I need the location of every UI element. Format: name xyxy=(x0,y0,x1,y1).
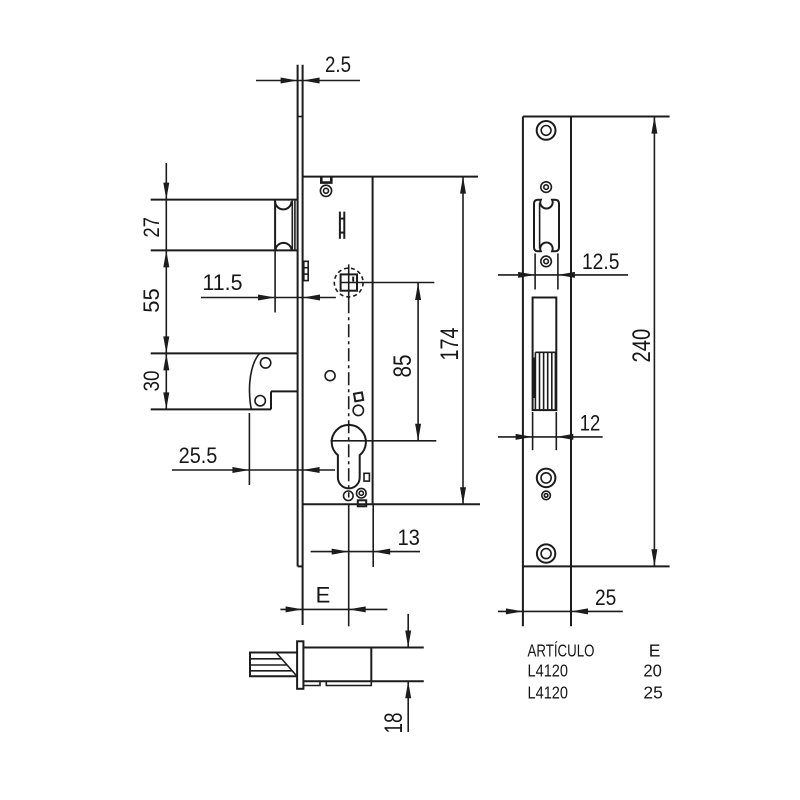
deadbolt opening xyxy=(533,298,557,411)
latch inner line xyxy=(539,203,541,249)
svg-text:13: 13 xyxy=(397,525,420,550)
dim 240 vertical line xyxy=(653,117,655,567)
left dimension chain vertical line xyxy=(165,163,167,409)
plate right edge (extended for 25 dim) xyxy=(570,117,572,627)
svg-text:174: 174 xyxy=(436,327,464,360)
dim 18 lower line xyxy=(407,682,409,732)
svg-text:20: 20 xyxy=(643,661,662,681)
latch nose hatch lines xyxy=(250,658,282,660)
dim 25.5 extension line xyxy=(248,413,250,485)
body bottom line (extended for 18 dim) xyxy=(303,680,423,682)
plate top edge (extended for 240 dim) xyxy=(523,116,670,118)
bottom screw hole xyxy=(537,544,555,562)
svg-text:18: 18 xyxy=(380,713,408,734)
latch top arc xyxy=(275,201,291,209)
dim 25 line left xyxy=(498,610,623,612)
dim 2.5 line left xyxy=(256,80,360,82)
dim 25.5 arrow left xyxy=(232,467,249,473)
lower-left area bottom line (dim extension) xyxy=(151,408,271,410)
guard piece hole upper xyxy=(260,358,270,368)
latch head left edge extension down xyxy=(274,250,276,312)
svg-text:E: E xyxy=(316,583,331,608)
guard piece right edge xyxy=(270,391,272,409)
small rect on case bottom xyxy=(358,500,366,506)
dim 12.5 extensions xyxy=(534,254,536,290)
middle screw hole outer xyxy=(537,469,556,488)
tiny screw xyxy=(542,491,551,500)
bottom tab 1 xyxy=(303,681,320,685)
latch cutout xyxy=(534,200,559,252)
top screw hole inner xyxy=(541,125,551,135)
deadbolt stripes xyxy=(539,352,541,410)
dim 12 line left xyxy=(498,436,603,438)
svg-text:25: 25 xyxy=(643,682,663,702)
svg-text:30: 30 xyxy=(139,371,164,392)
latch top line (also dim extension) xyxy=(151,199,298,201)
small screw below latch xyxy=(541,256,552,267)
top screw hole outer xyxy=(537,121,556,140)
deadbolt top line xyxy=(535,351,555,353)
svg-text:12: 12 xyxy=(580,411,601,436)
deadbolt thick left accent xyxy=(532,358,535,399)
latch neck lines xyxy=(291,201,293,250)
dim 85 vertical line xyxy=(417,283,419,441)
latch bottom line (also dim extension) xyxy=(151,249,298,251)
body top line (extended for 18 dim) xyxy=(303,647,423,649)
centerline extension below case (for 13 and E dims) xyxy=(348,504,350,626)
curved guard piece arc xyxy=(249,354,259,410)
small circle below tilted square xyxy=(353,405,363,415)
tilted small square xyxy=(354,392,363,401)
lower-left area top line (dim extension) xyxy=(151,352,298,354)
dim 13 extension (case right edge) xyxy=(372,504,374,567)
guard piece step line xyxy=(271,390,298,392)
body right edge xyxy=(370,648,372,682)
latch nose bevel diagonal xyxy=(277,653,297,676)
3-cell rect on faceplate xyxy=(304,261,308,280)
faceplate side: inner line xyxy=(302,65,304,625)
circle below cylinder xyxy=(344,491,354,501)
screw next to cylinder: inner xyxy=(359,491,363,495)
screw top-left: inner xyxy=(324,188,329,193)
plate left edge (extended for 25 dim) xyxy=(522,117,524,627)
pin/spring symbol xyxy=(340,212,344,239)
vertical dash-dot centerline xyxy=(348,300,350,497)
dim 174 vertical line xyxy=(462,177,464,505)
small tab right of cylinder stem xyxy=(364,473,369,481)
small screw above latch xyxy=(541,182,552,193)
faceplate side: outer line xyxy=(297,65,299,567)
svg-text:2.5: 2.5 xyxy=(325,52,351,77)
svg-text:E: E xyxy=(649,641,661,661)
dim 2.5 arrow left xyxy=(281,78,298,84)
faceplate cross-section xyxy=(297,641,303,689)
svg-text:L4120: L4120 xyxy=(528,682,569,702)
follower vertical centerline xyxy=(348,264,350,300)
faceplate tick at front-view top level xyxy=(298,116,303,118)
guard piece hole lower xyxy=(255,396,265,406)
faceplate bottom tick xyxy=(298,565,303,567)
svg-text:240: 240 xyxy=(628,329,656,363)
dim 13 line left xyxy=(311,551,420,553)
screw top-left: outer xyxy=(320,185,331,196)
svg-text:55: 55 xyxy=(139,288,164,313)
svg-text:25.5: 25.5 xyxy=(179,443,218,468)
svg-text:27: 27 xyxy=(139,217,164,237)
case right edge xyxy=(372,177,374,505)
chain arrows xyxy=(163,183,169,200)
svg-text:25: 25 xyxy=(595,585,616,610)
case bottom edge (extended for 174 dim) xyxy=(303,503,480,505)
dim 25.5 line left xyxy=(172,469,335,471)
svg-text:L4120: L4120 xyxy=(528,661,569,681)
follower square xyxy=(341,274,357,290)
bottom tab 2 xyxy=(326,681,371,685)
follower horizontal line to 85-dim extension xyxy=(341,282,435,284)
dim 2.5 arrow right xyxy=(303,78,320,84)
dim 11.5 arrow right xyxy=(303,295,320,301)
svg-text:12.5: 12.5 xyxy=(582,249,620,274)
svg-text:85: 85 xyxy=(389,355,417,378)
latch nose outline xyxy=(250,653,297,677)
dim 85 extension line (cylinder center) xyxy=(331,440,437,442)
dim 25.5 arrow right xyxy=(303,467,320,473)
dim 12 extensions xyxy=(532,412,534,450)
top notch xyxy=(321,177,331,183)
euro cylinder profile xyxy=(332,425,366,488)
dim 11.5 arrow left xyxy=(258,295,275,301)
dim 18 upper line xyxy=(407,614,409,647)
follower dashed circle xyxy=(334,268,363,297)
screw next to cylinder: outer xyxy=(357,488,367,498)
latch head left edge xyxy=(274,200,276,251)
dim E line left xyxy=(280,608,387,610)
deadbolt edge lines xyxy=(534,352,536,410)
svg-text:ARTÍCULO: ARTÍCULO xyxy=(528,641,595,661)
dim 11.5 line left xyxy=(201,297,336,299)
plate bottom edge (extended for 240 dim) xyxy=(523,565,670,567)
case top edge (extended for 174 dim) xyxy=(303,176,478,178)
latch bottom arc xyxy=(275,243,291,250)
svg-text:11.5: 11.5 xyxy=(203,270,243,295)
follower inner mark xyxy=(352,277,354,282)
dim 12.5 line left xyxy=(498,274,628,276)
small hole in case xyxy=(325,371,335,381)
